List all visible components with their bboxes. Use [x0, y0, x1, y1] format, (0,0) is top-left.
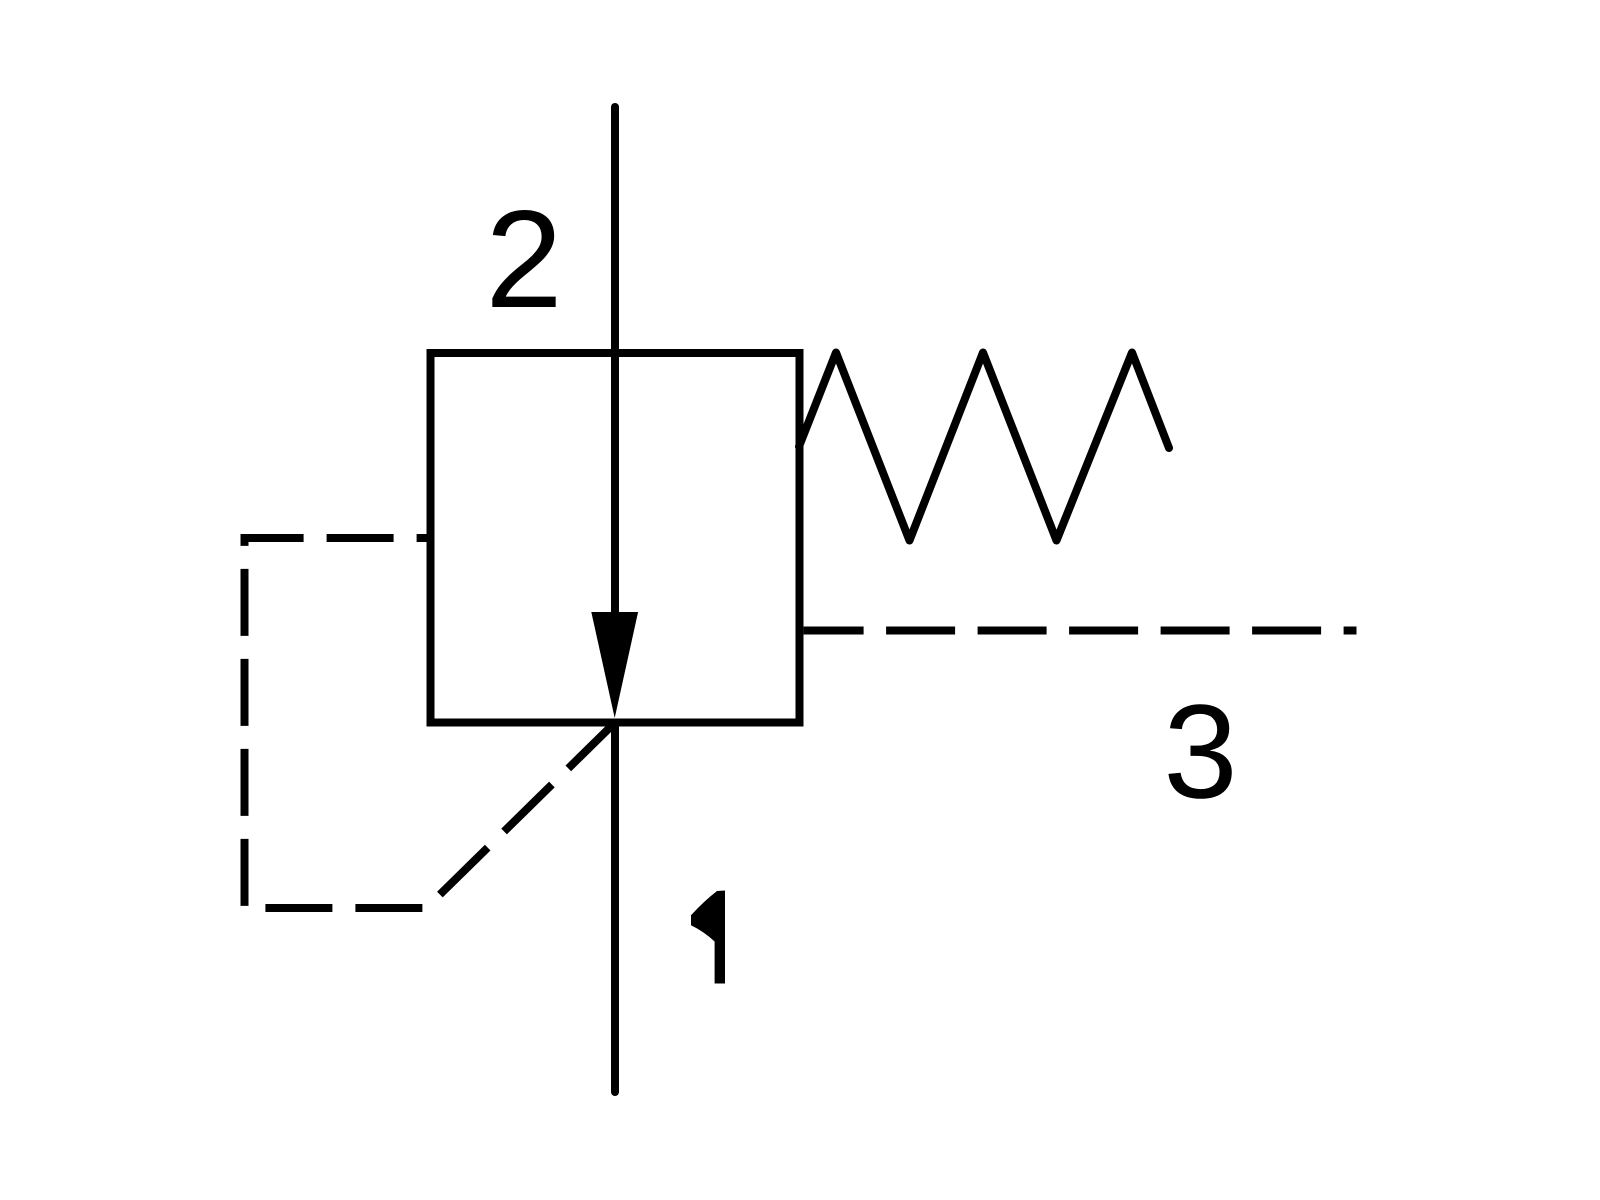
valve body envelope: [431, 353, 800, 723]
pilot line: feedback loop (dashed): [245, 538, 616, 908]
pilot line: port 3 (dashed): [804, 627, 1357, 635]
svg-text:2: 2: [485, 182, 562, 337]
flow direction arrow: [591, 612, 638, 718]
wire: port 2 inlet line: [611, 107, 619, 616]
svg-text:3: 3: [1163, 678, 1237, 827]
wire: port 1 outlet line: [611, 723, 619, 1093]
port label 1: [691, 891, 725, 984]
spring: [799, 353, 1169, 541]
